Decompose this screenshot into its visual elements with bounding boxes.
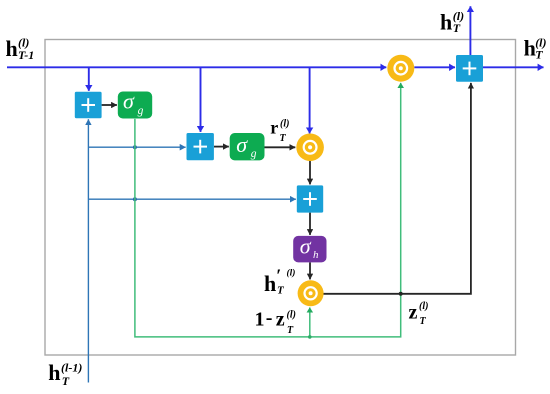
svg-text:σ: σ bbox=[300, 233, 312, 258]
svg-text:(l): (l) bbox=[280, 118, 289, 129]
cell boundary box bbox=[45, 40, 516, 356]
label r_T^{(l)} bbox=[270, 118, 289, 145]
wire blue drop to add1 bbox=[88, 67, 90, 91]
label h_T^{(l-1)} bottom bbox=[48, 360, 82, 388]
wire z green path bbox=[135, 83, 401, 337]
add box 4 bbox=[456, 55, 483, 82]
add box 1 bbox=[75, 92, 102, 118]
svg-text:r: r bbox=[270, 118, 278, 138]
add box 3 bbox=[297, 185, 323, 212]
wire h_T^(l-1) input vertical bbox=[87, 119, 89, 382]
svg-text:h: h bbox=[524, 35, 536, 60]
mul circle r (element-wise product) bbox=[296, 134, 324, 162]
svg-text:z: z bbox=[276, 309, 285, 331]
junction dot green branch bbox=[308, 335, 312, 339]
svg-text:T: T bbox=[535, 48, 543, 62]
svg-text:(l): (l) bbox=[419, 301, 428, 312]
wire input branch to add3 bbox=[88, 198, 296, 200]
svg-text:T-1: T-1 bbox=[18, 48, 34, 62]
wire add3 to sigma-h bbox=[309, 213, 311, 235]
sigma_g box 1 bbox=[118, 89, 152, 119]
junction dot blue-green cross 1 bbox=[133, 145, 137, 149]
svg-text:T: T bbox=[280, 133, 287, 144]
label h_T^{(l)} right bbox=[524, 35, 547, 61]
mul circle z (element-wise product, top) bbox=[387, 55, 414, 82]
wire add1 to sigma-g1 bbox=[102, 104, 117, 106]
svg-text:g: g bbox=[138, 105, 144, 117]
wire mul-z to add4 bbox=[414, 66, 455, 68]
label h_{T-1}^{(l)} bbox=[6, 36, 35, 63]
wire mul-h to add4 riser bbox=[324, 83, 471, 294]
svg-text:T: T bbox=[62, 374, 70, 388]
svg-text:-: - bbox=[266, 307, 273, 329]
svg-text:σ: σ bbox=[123, 89, 135, 114]
sigma_h box bbox=[293, 233, 326, 262]
junction dot green-black cross bbox=[399, 292, 403, 296]
wire input branch to add2 bbox=[88, 146, 185, 148]
svg-text:z: z bbox=[409, 302, 418, 324]
wire add2 to sigma-g2 bbox=[214, 146, 229, 148]
svg-text:h: h bbox=[48, 360, 60, 385]
svg-text:T: T bbox=[277, 285, 285, 297]
svg-text:(l-1): (l-1) bbox=[61, 360, 82, 374]
label 1 - z_T^{(l)} bbox=[255, 307, 296, 336]
svg-text:1: 1 bbox=[255, 309, 265, 331]
label z_T^{(l)} bbox=[409, 301, 429, 327]
svg-text:(l): (l) bbox=[287, 310, 296, 321]
label h_T^{(l)} top bbox=[440, 9, 464, 35]
wire mul-r to add3 bbox=[309, 161, 311, 184]
svg-text:σ: σ bbox=[236, 132, 248, 157]
svg-text:h: h bbox=[313, 249, 319, 261]
svg-text:′: ′ bbox=[276, 266, 281, 286]
wire add4 to right output bbox=[483, 66, 544, 68]
add box 2 bbox=[187, 133, 214, 160]
sigma_g box 2 bbox=[230, 132, 265, 161]
svg-text:T: T bbox=[420, 316, 427, 327]
wire 1-z green branch bbox=[309, 308, 311, 337]
svg-text:g: g bbox=[251, 148, 257, 160]
junction dot blue-green cross 2 bbox=[133, 197, 137, 201]
wire sigma-h to mul-h bbox=[309, 262, 311, 279]
wire h_{T-1} main blue line bbox=[7, 66, 386, 68]
svg-text:h: h bbox=[440, 9, 452, 34]
wire add4 up output bbox=[469, 6, 471, 55]
svg-text:T: T bbox=[453, 21, 461, 35]
label h'_T^{(l)} bbox=[264, 266, 295, 297]
svg-text:h: h bbox=[6, 36, 18, 61]
wire sigma-g2 to mul-r bbox=[265, 146, 296, 148]
svg-text:h: h bbox=[264, 271, 276, 296]
svg-text:(l): (l) bbox=[287, 267, 296, 278]
mul circle h (element-wise product) bbox=[298, 280, 324, 306]
wire blue drop to mul-r bbox=[309, 67, 311, 133]
svg-text:T: T bbox=[287, 325, 294, 336]
wire blue drop to add2 bbox=[200, 67, 202, 132]
